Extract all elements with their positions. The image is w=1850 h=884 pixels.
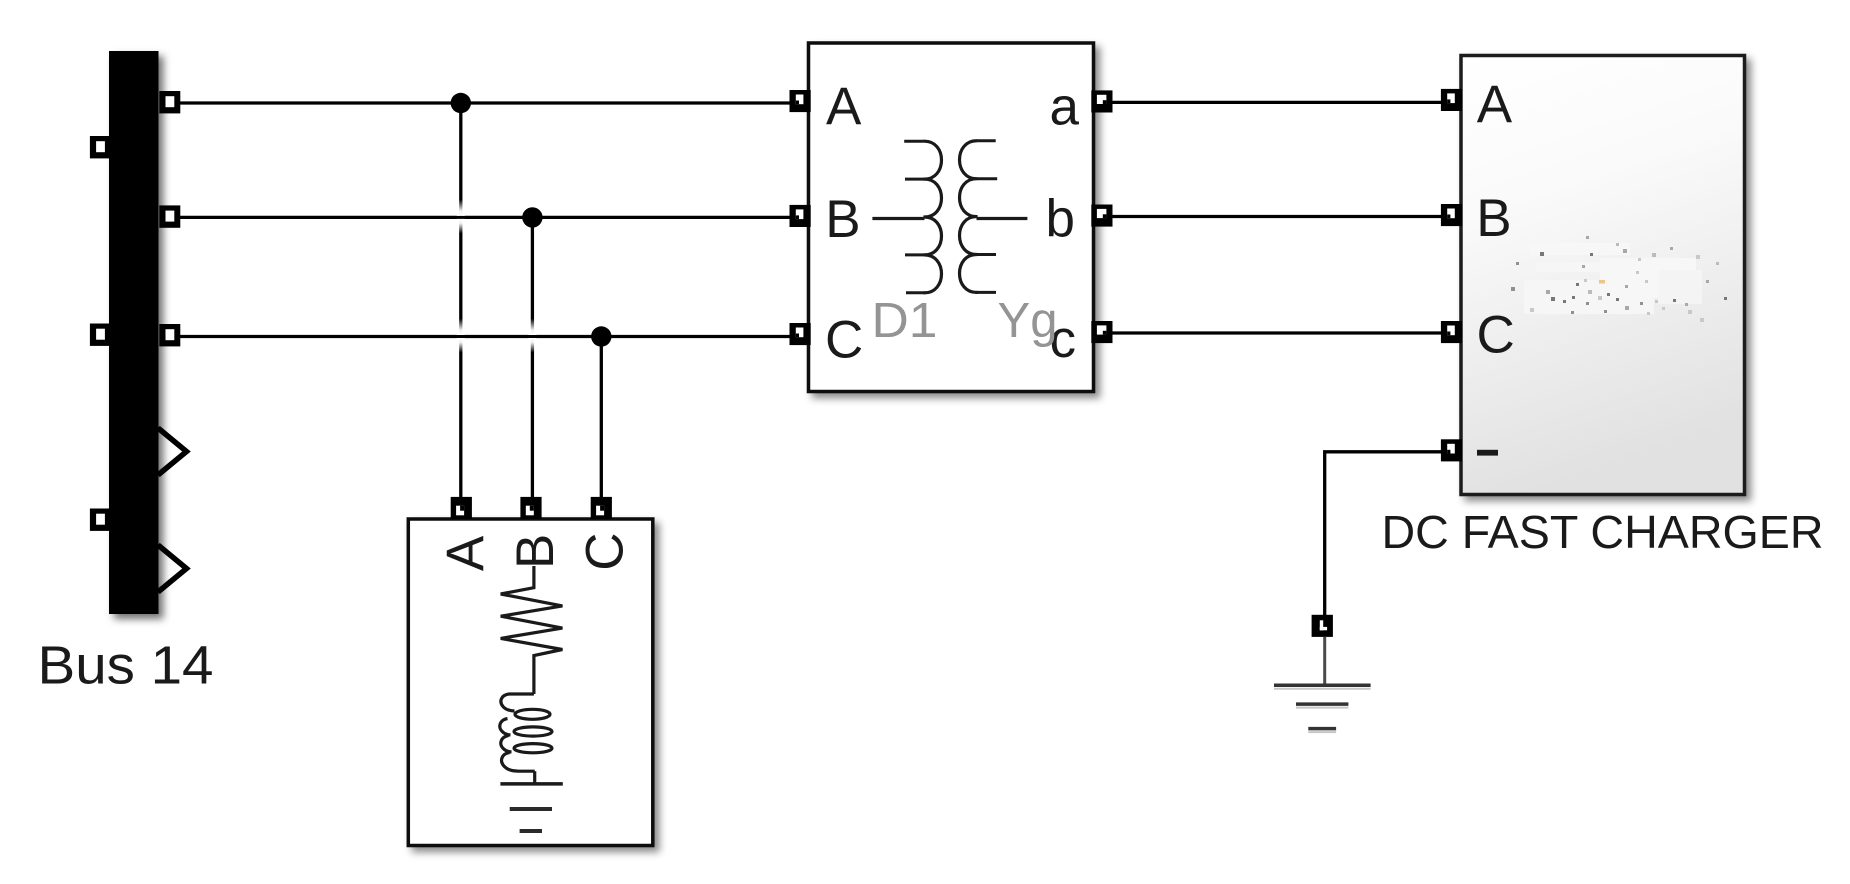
three-phase RLC load block body [408,519,653,846]
svg-text:A: A [1477,75,1513,134]
bus right port 2 (phase B) [159,205,180,227]
load port A [451,497,472,519]
bus left port 1 [90,136,111,158]
wire phase B: bus to transformer B [170,216,800,219]
wire phase A: bus to transformer A [170,101,800,104]
junction node phase A tap [451,93,471,113]
charger port C [1441,321,1462,343]
bus left port 2 [90,324,111,346]
wire tap C down to load port C [600,337,603,506]
load resistor (zigzag) [501,566,563,694]
svg-text:b: b [1046,190,1075,249]
transformer port A [790,90,811,112]
load terminal stub [520,829,542,833]
DC FAST CHARGER block body [1461,56,1745,495]
wire minus: charger - port to ground [1325,452,1450,616]
wire tap A down to load port A [459,103,462,505]
transformer primary lead (B) [872,217,924,220]
load port C [591,497,612,519]
load capacitor lead [533,771,536,784]
svg-text:C: C [825,311,863,370]
junction node phase C tap [591,326,611,346]
svg-text:D1: D1 [872,294,938,348]
svg-text:A: A [826,77,862,136]
wire phase a: transformer a to charger A [1100,101,1450,104]
transformer port B [790,205,811,227]
crossing fade v2 x wire C [528,319,536,335]
svg-text:C: C [576,532,635,570]
charger label minus [1477,450,1498,456]
transformer port b [1091,205,1112,227]
transformer port a [1091,90,1112,112]
charger port minus [1441,439,1462,461]
wire tap B down to load port B [531,217,534,505]
svg-text:B: B [1476,189,1511,248]
transformer block D1/Yg body [809,43,1094,392]
wire phase C: bus to transformer C [170,335,800,338]
bus right port 1 (phase A) [159,91,180,113]
bus chevron 2 [158,545,187,592]
bus left port 3 [90,509,111,531]
svg-text:A: A [436,535,495,571]
bus bar Bus 14 [109,51,159,614]
svg-text:Yg: Yg [998,294,1058,348]
load port B [520,497,541,519]
transformer port c [1091,321,1112,343]
transformer secondary lead (b) [977,217,1028,220]
crossing fade v1 x wire C [457,319,465,335]
transformer port C [790,323,811,345]
wire phase b: transformer b to charger B [1100,215,1450,218]
load inductor (coil) [500,694,535,771]
svg-text:B: B [825,190,860,249]
charger port A [1441,89,1462,111]
junction node phase B tap [522,207,542,227]
ground stem [1323,637,1326,684]
charger port B [1441,204,1462,226]
ground bar 1 [1274,683,1371,687]
bus chevron 1 [158,428,187,475]
ground bar 2 [1296,702,1348,706]
svg-text:DC FAST CHARGER: DC FAST CHARGER [1382,506,1824,558]
bus right port 3 (phase C) [159,324,180,346]
load capacitor plate 1 [500,782,562,786]
svg-text:C: C [1477,305,1515,364]
faint thumbnail image inside charger block [1511,236,1727,322]
svg-text:Bus 14: Bus 14 [38,635,214,695]
wire phase c: transformer c to charger C [1100,331,1450,334]
svg-text:a: a [1050,78,1080,137]
load capacitor plate 2 [510,807,552,811]
ground port [1312,615,1333,637]
ground bar 3 [1308,727,1336,731]
svg-text:B: B [506,534,565,569]
transformer primary winding [924,141,942,293]
transformer secondary winding [960,141,978,293]
crossing fade v1 x wire B [457,200,465,216]
